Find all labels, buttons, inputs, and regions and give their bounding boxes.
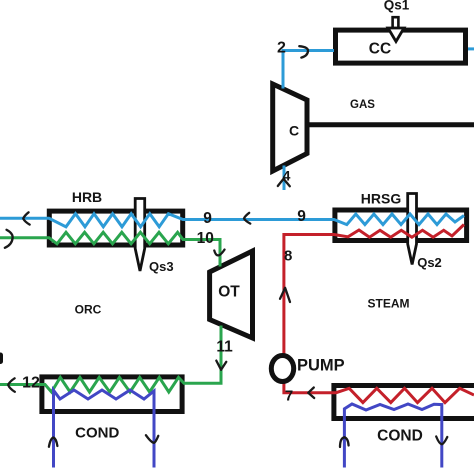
svg-text:Qs1: Qs1 bbox=[384, 0, 410, 12]
svg-text:COND: COND bbox=[75, 424, 119, 441]
svg-text:8: 8 bbox=[284, 247, 292, 264]
svg-text:COND: COND bbox=[377, 428, 423, 445]
svg-text:OT: OT bbox=[218, 284, 240, 301]
svg-text:Qs3: Qs3 bbox=[149, 259, 174, 274]
svg-text:9: 9 bbox=[297, 208, 306, 225]
svg-text:9: 9 bbox=[203, 210, 212, 227]
svg-text:PUMP: PUMP bbox=[297, 357, 345, 375]
svg-text:C: C bbox=[289, 122, 299, 138]
svg-text:Qs2: Qs2 bbox=[417, 255, 442, 270]
svg-text:2: 2 bbox=[277, 40, 286, 57]
svg-text:HRSG: HRSG bbox=[361, 191, 402, 207]
svg-text:12: 12 bbox=[22, 375, 40, 392]
svg-text:CC: CC bbox=[369, 40, 391, 57]
svg-text:11: 11 bbox=[216, 339, 233, 356]
svg-text:ORC: ORC bbox=[75, 303, 102, 317]
svg-text:HRB: HRB bbox=[72, 189, 102, 205]
svg-text:4: 4 bbox=[283, 167, 291, 183]
svg-text:STEAM: STEAM bbox=[368, 297, 410, 311]
svg-text:7: 7 bbox=[285, 388, 293, 405]
svg-text:10: 10 bbox=[197, 230, 214, 247]
svg-text:GAS: GAS bbox=[350, 99, 375, 111]
